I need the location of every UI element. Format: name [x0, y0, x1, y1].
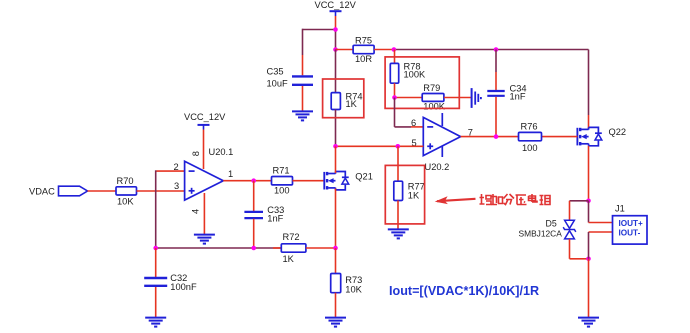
wire top loop to Q22 drain: [394, 49, 589, 51]
node junction R78 R79: [392, 95, 397, 100]
svg-text:R76: R76: [521, 121, 538, 131]
svg-text:1K: 1K: [346, 99, 358, 109]
wire op-amp output pin7: [461, 136, 519, 138]
wire R76 right lead to Q22 gate: [542, 136, 578, 138]
svg-text:U20.2: U20.2: [425, 162, 450, 172]
wire J1 IOUT+ stub: [588, 201, 590, 223]
wire rail VCC to R74: [335, 50, 337, 93]
wire VCC branch to C35: [303, 29, 336, 31]
wire R74 to node: [335, 110, 337, 147]
wire VDAC to R70: [88, 190, 117, 192]
capacitor C33: [244, 211, 263, 213]
svg-text:10R: 10R: [355, 54, 372, 64]
svg-text:4: 4: [190, 209, 200, 214]
svg-text:SMBJ12CA: SMBJ12CA: [519, 229, 563, 239]
wire R70 to op-amp pin3: [137, 190, 185, 192]
ground below op-amp pin4: [194, 234, 215, 236]
resistor R76: [519, 132, 542, 140]
wire R79 left lead: [395, 97, 423, 99]
svg-text:VCC_12V: VCC_12V: [184, 112, 226, 122]
svg-text:C35: C35: [267, 66, 284, 76]
wire C34 top lead: [495, 50, 497, 73]
svg-text:Iout=[(VDAC*1K)/10K]/1R: Iout=[(VDAC*1K)/10K]/1R: [389, 284, 539, 298]
svg-text:100: 100: [522, 143, 538, 153]
wire J1 IOUT- stub: [589, 231, 613, 233]
svg-text:1: 1: [228, 169, 233, 179]
node VCC junction at R75 row: [333, 47, 338, 52]
highlight box around R77: [385, 165, 424, 224]
svg-text:IOUT-: IOUT-: [619, 228, 641, 237]
node junction R77 top: [396, 144, 401, 149]
ground below R73: [325, 317, 346, 319]
node junction C34 top: [494, 47, 499, 52]
node junction output C33: [251, 178, 256, 183]
resistor R78: [390, 63, 398, 83]
svg-text:10K: 10K: [117, 196, 134, 206]
node junction rail Q21 R73: [333, 246, 338, 251]
capacitor C32 bottom lead: [155, 287, 157, 318]
resistor R75: [353, 45, 374, 53]
svg-text:100K: 100K: [404, 70, 427, 80]
connector J1 box: [613, 216, 648, 244]
power VCC_12V symbol (top): [330, 10, 342, 12]
svg-text:R72: R72: [283, 232, 300, 242]
svg-text:R71: R71: [273, 165, 290, 175]
svg-text:3: 3: [174, 181, 179, 191]
op-amp U20.1: [185, 161, 224, 200]
node VCC junction upper: [333, 27, 338, 32]
resistor R72: [281, 244, 306, 252]
svg-text:10K: 10K: [345, 284, 362, 294]
node junction D5 J1 ground: [586, 257, 591, 262]
diode D5 TVS: [565, 220, 575, 228]
annotation text zengjia fenya dianzu: [480, 194, 551, 205]
wire pin5 row: [336, 145, 424, 147]
transistor Q21: [323, 172, 325, 190]
svg-text:Q22: Q22: [609, 127, 627, 137]
svg-text:100K: 100K: [423, 101, 446, 111]
capacitor C32: [144, 277, 167, 279]
node junction Q22 D5 J1: [586, 199, 591, 204]
svg-text:10uF: 10uF: [267, 78, 289, 88]
wire R78 bottom lead: [394, 83, 396, 97]
wire node to ground right: [588, 259, 590, 318]
annotation arrow: [437, 199, 476, 201]
node junction R78 top: [392, 47, 397, 52]
wire to D5 top: [570, 200, 589, 202]
op-amp U20.2 power stub top: [441, 113, 443, 126]
transistor Q22: [576, 128, 578, 146]
capacitor C35: [292, 75, 313, 77]
svg-text:VCC_12V: VCC_12V: [315, 0, 357, 10]
capacitor C32 top lead: [155, 248, 157, 278]
svg-text:1K: 1K: [283, 254, 295, 264]
wire R77 top lead: [397, 146, 399, 181]
op-amp U20.2: [423, 117, 460, 155]
highlight box around R74: [323, 79, 364, 118]
power VCC_12V symbol (op-amp U20.1 pin8): [198, 124, 210, 126]
op-amp U20.2 power stub bottom: [441, 147, 443, 158]
resistor R73: [331, 274, 341, 293]
capacitor C33 top lead: [253, 181, 255, 212]
wire R71 to Q21 gate: [293, 180, 325, 182]
wire C35 to ground: [302, 86, 304, 112]
svg-text:100nF: 100nF: [170, 282, 197, 292]
svg-text:Q21: Q21: [355, 171, 373, 181]
wire R73 top lead: [335, 248, 337, 274]
wire R75 left lead: [336, 49, 354, 51]
svg-text:J1: J1: [615, 203, 625, 213]
wire D5 bottom to node: [569, 239, 571, 259]
svg-text:R79: R79: [423, 83, 440, 93]
resistor R79: [422, 94, 444, 102]
node junction rail C33: [251, 246, 256, 251]
svg-text:8: 8: [191, 151, 201, 156]
earth ground right of R79: [471, 88, 473, 108]
svg-text:1nF: 1nF: [510, 91, 526, 101]
node junction pin7 C34: [494, 134, 499, 139]
capacitor C33 bottom lead: [253, 219, 255, 248]
svg-text:VDAC: VDAC: [29, 186, 55, 196]
svg-text:2: 2: [174, 162, 179, 172]
highlight box around R78 R79: [385, 57, 459, 109]
wire R75 right lead: [374, 49, 394, 51]
svg-text:R75: R75: [355, 35, 372, 45]
wire R77 bottom lead: [397, 201, 399, 230]
wire pin6 feedback path: [394, 98, 396, 127]
wire bottom rail left: [156, 247, 282, 249]
svg-text:D5: D5: [546, 219, 557, 229]
resistor R70: [116, 187, 137, 195]
ground bottom right: [578, 317, 599, 319]
svg-text:1K: 1K: [408, 190, 420, 200]
node junction rail C32: [153, 246, 158, 251]
wire Q22 source lead: [588, 146, 590, 201]
svg-text:6: 6: [411, 118, 416, 128]
wire Q21 drain lead: [335, 146, 337, 173]
capacitor C34: [487, 90, 504, 92]
wire op-amp pin8 lead: [203, 130, 205, 170]
svg-text:IOUT+: IOUT+: [619, 219, 644, 228]
wire R73 bottom lead: [335, 293, 337, 318]
wire op-amp pin2 feedback: [157, 170, 185, 172]
svg-text:1nF: 1nF: [267, 214, 283, 224]
ground below R77: [388, 228, 409, 230]
wire VCC rail upper: [335, 30, 337, 50]
wire C34 bottom lead: [495, 97, 497, 137]
wire R72 left lead: [273, 247, 281, 249]
node junction pin5 rail: [333, 144, 338, 149]
ground below C32: [145, 317, 166, 319]
svg-text:R73: R73: [345, 275, 362, 285]
wire op-amp pin4 lead: [203, 193, 205, 235]
port VDAC: [59, 186, 88, 196]
svg-text:U20.1: U20.1: [209, 147, 234, 157]
wire R78 top lead: [394, 50, 396, 64]
wire R79 to earth ground: [444, 97, 471, 99]
svg-text:100: 100: [274, 186, 290, 196]
wire Q21 source lead: [335, 189, 337, 249]
svg-text:R70: R70: [117, 176, 134, 186]
resistor R77: [394, 181, 403, 200]
resistor R71: [272, 177, 293, 185]
wire R72 right lead: [306, 247, 336, 249]
resistor R74: [331, 93, 340, 110]
ground below C35: [292, 110, 313, 112]
wire op-amp output pin1: [223, 180, 271, 182]
